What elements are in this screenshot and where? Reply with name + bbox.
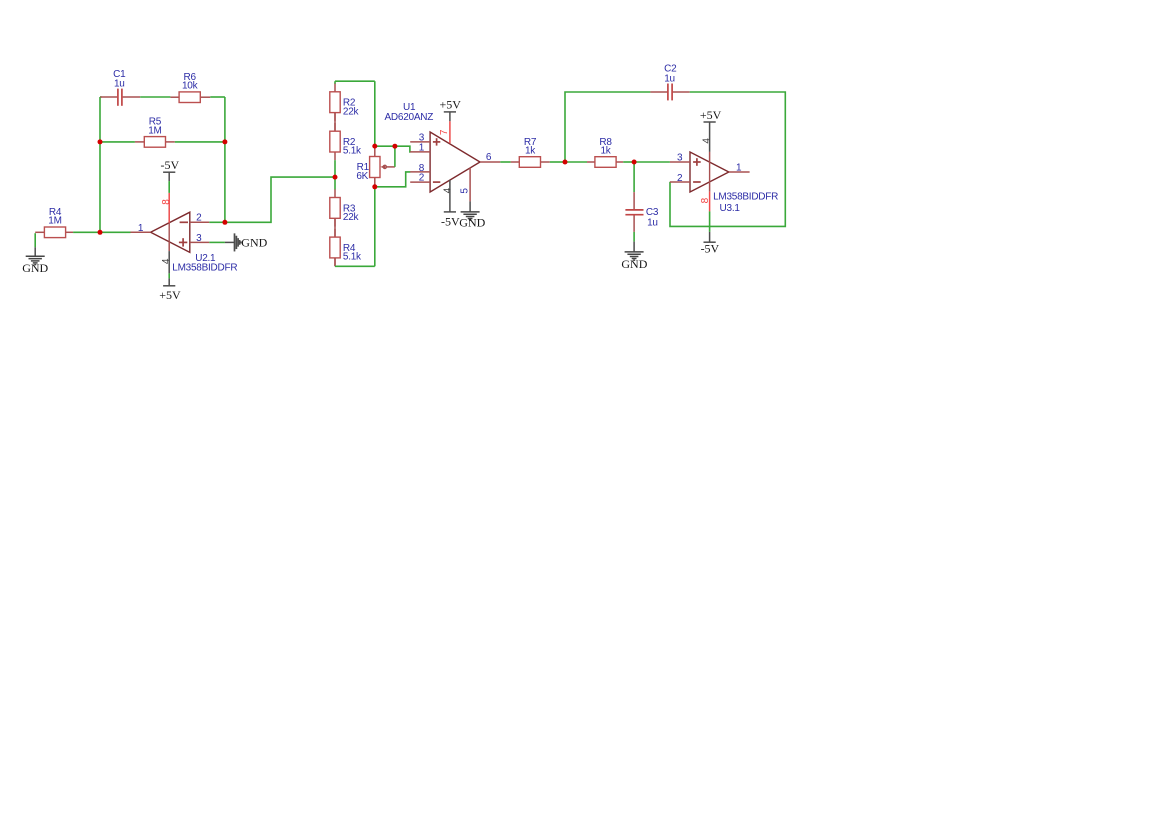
svg-text:1u: 1u: [114, 79, 125, 90]
svg-text:8: 8: [700, 197, 711, 203]
junction junction R1 bottom: [372, 184, 377, 189]
resistor R5 1M: [135, 117, 175, 148]
wire node down to C3: [633, 162, 635, 192]
svg-text:1M: 1M: [48, 216, 61, 227]
junction junction R1 top: [372, 144, 377, 149]
pin 1 U1: [410, 143, 430, 154]
svg-text:AD620ANZ: AD620ANZ: [385, 112, 434, 123]
resistor R7 1k: [511, 137, 550, 168]
wire chain R2 to mid node: [334, 160, 336, 169]
wire corner to C1: [100, 96, 102, 98]
wire chain bottom stub: [334, 258, 336, 266]
wire U1 out to R7: [500, 161, 510, 163]
svg-text:7: 7: [439, 129, 450, 135]
svg-text:4: 4: [161, 258, 172, 264]
svg-text:5.1k: 5.1k: [343, 252, 362, 263]
svg-text:4: 4: [442, 187, 453, 193]
power -5V symbol U2.1: [160, 158, 179, 193]
pin 2 U2.1: [190, 213, 210, 224]
svg-text:3: 3: [677, 153, 683, 164]
junction junction R5 right: [222, 139, 227, 144]
junction junction R5 left: [98, 139, 103, 144]
wire C1 to R6: [140, 96, 170, 98]
wire R8 to node: [623, 161, 634, 163]
svg-text:6K: 6K: [356, 171, 368, 182]
wire node up to C2: [565, 92, 650, 162]
pin 2 U3.1: [670, 173, 690, 184]
pin 2 U1: [410, 173, 430, 184]
svg-text:5: 5: [460, 188, 471, 194]
wire R4 to U2 output: [73, 231, 130, 233]
power +5V symbol U2.1: [159, 273, 181, 301]
resistor R4 5.1k: [330, 229, 362, 266]
pin 1 output U2.1: [131, 223, 151, 234]
svg-text:1: 1: [138, 223, 144, 234]
svg-text:LM358BIDDFR: LM358BIDDFR: [172, 262, 237, 273]
resistor R2 22k: [330, 84, 360, 121]
svg-text:10k: 10k: [182, 81, 199, 92]
pin 4 power U2.1 (+5V): [161, 242, 172, 274]
wire U3.1 pin8 to -5V: [709, 211, 711, 242]
wire R6 to right vertical: [210, 96, 225, 98]
wire right branch lower: [374, 187, 376, 266]
pin 3 U3.1: [670, 153, 690, 164]
junction junction R8-C3-U3 node: [632, 160, 637, 165]
junction junction R7-R8-C2 node: [563, 160, 568, 165]
svg-text:U3.1: U3.1: [720, 203, 741, 214]
svg-text:1k: 1k: [525, 145, 536, 156]
power +5V symbol U1: [439, 98, 461, 122]
junction junction R1 wiper node: [392, 144, 397, 149]
svg-text:1k: 1k: [600, 145, 611, 156]
svg-text:LM358BIDDFR: LM358BIDDFR: [713, 192, 778, 203]
svg-text:1: 1: [419, 143, 425, 154]
junction junction divider mid node: [333, 175, 338, 180]
op-amp U3.1 LM358BIDDFR: [690, 152, 778, 214]
svg-text:3: 3: [196, 233, 202, 244]
capacitor C3 1u: [625, 192, 658, 232]
wire right vertical feedback: [224, 97, 226, 222]
wire node to U1 pin8: [375, 172, 411, 187]
svg-text:GND: GND: [22, 261, 48, 275]
power +5V symbol U3.1: [700, 108, 722, 122]
svg-text:4: 4: [701, 138, 712, 144]
wire right branch upper: [374, 81, 376, 146]
wire chain bottom: [335, 265, 375, 267]
op-amp U2.1 LM358BIDDFR: [151, 212, 238, 273]
svg-text:+5V: +5V: [159, 288, 181, 302]
pin 5 ground U1: [460, 168, 471, 212]
svg-text:5.1k: 5.1k: [343, 146, 362, 157]
pin 3 U2.1: [190, 233, 210, 244]
ground GND at U1 pin5: [459, 212, 485, 230]
wire node to U3 pin3: [634, 161, 670, 163]
junction junction U2.1 pin2 feedback node: [222, 220, 227, 225]
svg-text:-5V: -5V: [441, 214, 460, 228]
svg-text:GND: GND: [621, 257, 647, 271]
svg-text:22k: 22k: [343, 106, 360, 117]
potentiometer R1 6K: [356, 146, 395, 187]
wire C3 to ground: [633, 232, 635, 252]
power -5V symbol U1: [441, 212, 460, 228]
svg-text:1: 1: [736, 162, 742, 173]
capacitor C1 1u: [100, 69, 140, 106]
svg-text:2: 2: [677, 173, 683, 184]
svg-text:1u: 1u: [647, 217, 658, 228]
power -5V symbol U3.1: [701, 241, 720, 255]
svg-text:-5V: -5V: [701, 241, 720, 255]
pin 3 U1: [410, 132, 430, 143]
pin 8 power U3.1 (-5V): [700, 182, 711, 212]
svg-text:GND: GND: [241, 235, 267, 249]
svg-text:6: 6: [486, 152, 492, 163]
wire feedback node to divider mid: [225, 177, 335, 222]
pin 4 power U1 (-5V): [442, 180, 453, 212]
resistor R3 22k: [330, 189, 360, 226]
ground GND below C3: [621, 252, 647, 271]
capacitor C2 1u: [650, 64, 689, 101]
wire R7 to node: [550, 161, 565, 163]
svg-text:1M: 1M: [148, 125, 161, 136]
wire R5 right to node: [175, 141, 225, 143]
pin 8 U1: [410, 163, 430, 174]
resistor R6 10k: [170, 72, 210, 103]
wire R1 wiper up: [394, 146, 396, 167]
wire node to U1 pin1: [375, 146, 411, 152]
svg-text:GND: GND: [459, 216, 485, 230]
junction junction node feedback-left: [98, 230, 103, 235]
wire node to R5 left: [100, 141, 135, 143]
wire chain top: [335, 80, 375, 82]
svg-text:C3: C3: [646, 207, 659, 218]
wire chain between R3-R4: [334, 218, 336, 237]
svg-text:-5V: -5V: [160, 158, 179, 172]
ground GND at U2.1 pin3: [209, 233, 267, 251]
resistor R2 5.1k: [330, 123, 362, 160]
svg-text:2: 2: [419, 173, 425, 184]
svg-text:2: 2: [196, 213, 202, 224]
pin 4 power U3.1 (+5V): [701, 122, 712, 162]
wire left vertical feedback: [99, 97, 101, 232]
pin 6 output U1: [480, 152, 500, 163]
resistor R4 1M: [35, 207, 73, 238]
pin 7 power U1 (+5V): [439, 121, 450, 143]
resistor R8 1k: [587, 137, 623, 168]
wire U2.1 pin2 to node: [209, 221, 225, 223]
instrumentation amp U1 AD620ANZ: [385, 102, 480, 192]
pin 8 power U2.1 (-5V): [161, 193, 172, 223]
wire chain top stub: [334, 81, 336, 84]
ground GND (input, bottom-left): [34, 233, 36, 256]
pin 1 output U3.1: [729, 162, 750, 173]
svg-text:8: 8: [161, 199, 172, 205]
svg-text:1u: 1u: [664, 74, 675, 85]
svg-text:22k: 22k: [343, 212, 360, 223]
wire chain between R2-R2: [334, 113, 336, 132]
wire node to R8: [565, 161, 587, 163]
svg-text:+5V: +5V: [700, 108, 722, 122]
wire C2 feedback loop: [670, 92, 785, 226]
svg-text:+5V: +5V: [439, 98, 461, 112]
